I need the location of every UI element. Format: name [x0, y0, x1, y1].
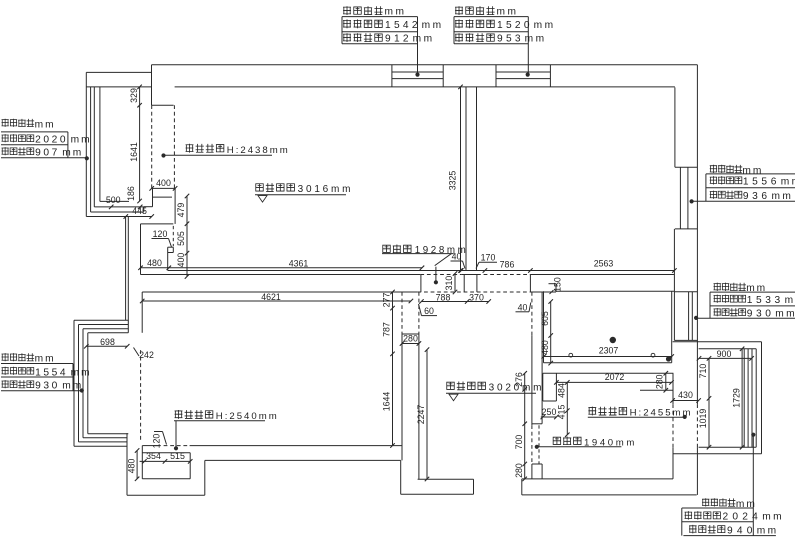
dim 480 flue line (rotated): [135, 448, 139, 481]
svg-text:2307: 2307: [599, 346, 619, 356]
flue box at SW bedroom south: [142, 446, 190, 479]
svg-text:2072: 2072: [605, 372, 625, 382]
wall: bedroom east inner face with balcony opening dashes: [672, 373, 674, 479]
wall: west wall of living room top section: [152, 65, 174, 105]
dim ticks 40/170/786/2563 on wall face: [459, 268, 677, 272]
dim text 329 (rotated): [129, 88, 139, 103]
dim text 277 (rotated): [382, 293, 392, 308]
dim text 186 (rotated): [126, 186, 136, 201]
svg-text:479: 479: [176, 203, 186, 218]
wall: kitchen west inner face: [543, 291, 545, 363]
svg-text:mm: mm: [35, 119, 56, 130]
door frame lines in west wall of bathroom: [402, 334, 419, 344]
wall: hall south wall solid west part: [142, 291, 417, 293]
dim text 698: [100, 337, 115, 347]
wall: north face line of hall (solid+dashed openings): [141, 274, 675, 276]
kitchen dots: [610, 337, 672, 362]
svg-text:698: 698: [100, 337, 115, 347]
wall: SW bedroom south inner wall: [142, 445, 402, 447]
wall: bathroom south protrusion: [401, 460, 474, 494]
dim 500 ticks: [109, 205, 142, 209]
svg-text:930: 930: [35, 381, 60, 392]
svg-text:940: 940: [727, 525, 757, 536]
window W2 jambs: [496, 65, 550, 87]
dim 698 line: [84, 344, 129, 348]
svg-text:3325: 3325: [447, 171, 457, 191]
wall: bedroom west wall line with kitchen door and bedroom door dashes: [531, 292, 533, 479]
svg-text:2563: 2563: [594, 259, 614, 269]
svg-text:515: 515: [170, 451, 185, 461]
svg-text:mm: mm: [525, 34, 547, 45]
svg-text:480: 480: [147, 258, 162, 268]
label: door height 1940 with leader: [535, 436, 637, 448]
svg-text:788: 788: [436, 292, 451, 302]
svg-text:415: 415: [557, 405, 567, 420]
balcony NW: inner wall top: [86, 86, 151, 88]
svg-text:170: 170: [481, 253, 496, 263]
wall: right exterior inner line between windows: [673, 229, 675, 292]
dim chain 277/787/1644 line: [390, 290, 394, 448]
svg-text:mm: mm: [772, 191, 794, 202]
svg-text:430: 430: [678, 390, 693, 400]
label: window east-top (1556/936) box: [690, 174, 795, 204]
svg-text:2247: 2247: [416, 405, 426, 425]
wall: top exterior outer line: [152, 64, 698, 66]
svg-text:700: 700: [514, 435, 524, 450]
dim text 400: [156, 178, 171, 188]
dim 710+1019 line: [707, 356, 711, 449]
dim text 354: [146, 451, 161, 461]
svg-text:505: 505: [176, 231, 186, 246]
dim text 479 (rotated): [176, 203, 186, 218]
label: window west-top text rows: [2, 119, 92, 159]
dim text 786: [500, 259, 515, 269]
door jamb line west of hall opening: [420, 275, 422, 293]
svg-text:mm: mm: [781, 177, 795, 188]
dim 276+700+280 line: [522, 371, 526, 481]
svg-text:930: 930: [747, 309, 775, 320]
label: window top-2 text rows: [455, 6, 556, 45]
dim text 120 flue (rotated) with leader: [152, 432, 167, 449]
dim text 400 vertical (rotated): [176, 253, 186, 268]
svg-text:445: 445: [132, 206, 147, 216]
window W1 glazing lines: [392, 72, 443, 79]
dim text 500: [106, 195, 121, 205]
bedroom door jambs: [532, 424, 542, 464]
label: window top-2 (1520) box: [454, 17, 530, 77]
kitchen counter lines: [544, 357, 672, 363]
dim text 242 with leader: [134, 348, 154, 361]
dim text 1641 (rotated): [129, 142, 139, 162]
wall: exterior south-west step: [127, 433, 401, 495]
wall: west exterior below balcony (double line): [126, 217, 129, 333]
label: door height 1928 with leader: [382, 244, 468, 284]
dim text 280 (rotated): [514, 463, 524, 478]
wall: hall south wall at bedroom top: [532, 291, 557, 293]
svg-text:242: 242: [139, 350, 154, 360]
dim text 710 (rotated): [698, 364, 708, 379]
balcony SE: top lines: [673, 342, 762, 349]
label: lintel H2438 with leader: [161, 144, 289, 158]
dim text 700 (rotated): [514, 435, 524, 450]
dim 280 closet line (rotated): [664, 371, 668, 392]
wall: bedroom south outer line: [522, 479, 697, 495]
svg-text:1928mm: 1928mm: [415, 245, 469, 256]
svg-text:605: 605: [540, 311, 550, 326]
dim text 3325 (rotated): [447, 171, 457, 191]
dim 788+370 line: [419, 299, 491, 303]
svg-text:277: 277: [382, 293, 392, 308]
svg-text:1019: 1019: [698, 409, 708, 429]
svg-text:4621: 4621: [261, 292, 281, 302]
dim text 415 (rotated): [557, 405, 567, 420]
wall: right exterior outer line: [696, 65, 698, 495]
dim text 505 (rotated): [176, 231, 186, 246]
svg-text:mm: mm: [385, 7, 407, 18]
svg-text:787: 787: [382, 322, 392, 337]
sill jamb lines below balcony door: [144, 188, 175, 224]
dim text 1019 (rotated): [698, 409, 708, 429]
wall pier between hall openings: [464, 275, 477, 293]
svg-text:480: 480: [540, 340, 550, 355]
dim text 280 closet (rotated): [655, 374, 665, 389]
svg-text:mm: mm: [757, 525, 779, 536]
dim 400 line (balcony opening): [149, 186, 177, 190]
window W3 (east wall upper): [675, 167, 698, 229]
wall pier left of kitchen door: [529, 275, 531, 293]
svg-text:936: 936: [743, 191, 771, 202]
dim chain 329+1641 line: [137, 85, 141, 204]
svg-text:mm: mm: [35, 354, 56, 365]
svg-text:mm: mm: [497, 7, 519, 18]
wall: bedroom south inner line: [522, 478, 673, 480]
dim text 2247 (rotated): [416, 405, 426, 425]
window W1 jambs: [392, 65, 443, 87]
balcony NW: sill lines at south end: [86, 201, 151, 216]
svg-text:1533: 1533: [747, 295, 784, 306]
svg-text:40: 40: [518, 302, 528, 312]
dim text 120 with leader: [152, 229, 172, 247]
dim 2247 line: [425, 347, 429, 481]
svg-text:60: 60: [424, 306, 434, 316]
svg-text:1644: 1644: [382, 392, 392, 412]
svg-text:mm: mm: [71, 367, 92, 378]
svg-text:912: 912: [385, 34, 412, 45]
svg-text:310: 310: [444, 276, 454, 291]
label: interior height 3020 with underline and level mark: [446, 381, 544, 400]
dim text 2563: [594, 259, 614, 269]
svg-text:3016mm: 3016mm: [298, 184, 354, 195]
svg-text:280: 280: [655, 374, 665, 389]
svg-text:1641: 1641: [129, 142, 139, 162]
svg-text:370: 370: [469, 292, 484, 302]
label: window west-mid text rows: [2, 353, 92, 392]
dim text 1729 (rotated): [731, 388, 741, 408]
svg-text:500: 500: [106, 195, 121, 205]
svg-text:1554: 1554: [35, 367, 68, 378]
window W-E balcony east glazing lines: [744, 342, 761, 454]
window W-A balcony west glazing lines: [86, 72, 100, 216]
bay window SW: nested outlines: [74, 320, 128, 446]
svg-text:953: 953: [497, 34, 524, 45]
label: window south-east (2024/940) box and leader: [682, 433, 776, 536]
window W4 (east wall at kitchen): [674, 292, 697, 341]
svg-text:3020mm: 3020mm: [489, 383, 545, 394]
dim chain 479/505/400 line: [185, 194, 189, 279]
kitchen counter circles: [569, 353, 655, 357]
svg-text:mm: mm: [785, 295, 795, 306]
dim text 480 (living room door): [147, 258, 162, 268]
svg-text:mm: mm: [775, 309, 795, 320]
label: window top-1 text rows: [343, 6, 444, 45]
label: lintel H2540 with leader: [174, 410, 279, 450]
label: window east-mid text rows: [714, 283, 795, 320]
wall: NW corner of SW bedroom: [141, 292, 143, 333]
svg-text:mm: mm: [422, 20, 444, 31]
svg-text:1556: 1556: [743, 177, 780, 188]
dim text 60 (underlined, leader): [419, 304, 438, 316]
dim text 280 door: [400, 333, 421, 345]
svg-text:mm: mm: [736, 499, 757, 510]
svg-text:900: 900: [717, 349, 732, 359]
dim text 480 flue (rotated): [126, 459, 136, 474]
label: window west-top (2020/907) box: [1, 132, 89, 161]
balcony SE: bottom lines: [673, 447, 762, 454]
dim text 445: [132, 206, 147, 216]
svg-text:710: 710: [698, 364, 708, 379]
svg-text:786: 786: [500, 259, 515, 269]
label: window south-east text rows: [685, 498, 784, 536]
svg-text:280: 280: [403, 333, 418, 343]
svg-text:mm: mm: [413, 34, 435, 45]
wall: right exterior opening to balcony (dashed): [696, 404, 698, 447]
dim text 1644 (rotated): [382, 392, 392, 412]
svg-text:1520: 1520: [497, 20, 533, 31]
dim 3325 line: [458, 85, 462, 273]
svg-text:480: 480: [126, 459, 136, 474]
dim text 787 (rotated): [382, 322, 392, 337]
wall: bathroom west wall with door opening (dashed): [402, 292, 419, 479]
svg-text:4361: 4361: [289, 259, 309, 269]
label: window top-1 (1542) box: [342, 17, 420, 77]
svg-text:mm: mm: [746, 283, 767, 294]
dim text 430: [678, 390, 693, 400]
svg-text:400: 400: [156, 178, 171, 188]
svg-text:186: 186: [126, 186, 136, 201]
closet east segment bottom: [640, 389, 673, 391]
dim 1729 line: [740, 347, 744, 450]
dim text 900: [717, 349, 732, 359]
closet front line / dim 2072 line: [554, 380, 674, 384]
wall: south face line of north rooms: [168, 270, 675, 272]
dim text 40 (underlined): [451, 252, 466, 269]
door jamb block SW: [168, 247, 174, 270]
kitchen top notch (150): [549, 284, 675, 292]
svg-text:120: 120: [152, 434, 162, 449]
dim text 605 (rotated): [540, 311, 550, 326]
svg-text:2024: 2024: [723, 512, 762, 523]
wall: partition between north rooms: [466, 87, 477, 271]
svg-text:150: 150: [553, 277, 563, 292]
svg-text:354: 354: [146, 451, 161, 461]
wall: right exterior inner line upper: [674, 87, 676, 167]
wall: top exterior inner line: [175, 86, 675, 88]
dim text 4361: [289, 259, 309, 269]
label: lintel H2455 with leader: [588, 407, 693, 419]
dim 484+415 line: [565, 380, 569, 437]
window W2 glazing lines: [496, 72, 550, 79]
svg-text:329: 329: [129, 88, 139, 103]
dim text 40 kitchen side (underlined, leader): [516, 302, 531, 312]
dim 605+480 line: [548, 299, 552, 365]
wall: bedroom west wall east face: [541, 292, 543, 479]
label: window east-top text rows: [710, 165, 795, 202]
svg-text:H:2438mm: H:2438mm: [227, 145, 290, 156]
dim text 310 (rotated): [444, 276, 454, 291]
svg-text:2020: 2020: [35, 135, 68, 146]
svg-text:mm: mm: [762, 512, 784, 523]
svg-text:250: 250: [542, 407, 557, 417]
dim 4621 line: [140, 299, 413, 303]
dim 900 line: [697, 356, 754, 360]
balcony NW: outer wall top: [86, 71, 151, 73]
svg-text:mm: mm: [71, 135, 92, 146]
dim text 4621: [261, 292, 281, 302]
svg-text:mm: mm: [62, 148, 83, 159]
svg-text:mm: mm: [742, 165, 763, 176]
dim text 480 kitchen (rotated): [540, 340, 550, 355]
svg-text:400: 400: [176, 253, 186, 268]
dim text 2072: [605, 372, 625, 382]
dim text 484 (rotated): [557, 383, 567, 398]
svg-text:mm: mm: [62, 381, 83, 392]
dim 310 line (rotated): [453, 271, 457, 294]
opening: bay window west side (dashed): [140, 350, 142, 442]
closet west box: [543, 373, 557, 401]
wall: hall south wall dashed openings: [417, 291, 531, 293]
dim text 788: [436, 292, 451, 302]
wall pier at living room SW corner: [141, 224, 174, 275]
door opening dashes (SW door): [172, 226, 174, 246]
svg-text:120: 120: [153, 229, 168, 239]
svg-text:1542: 1542: [385, 20, 421, 31]
dim 250 line and text: [541, 407, 559, 419]
svg-text:484: 484: [557, 383, 567, 398]
label: window west-mid (1554/930) box: [1, 364, 84, 393]
dim text 370: [469, 292, 484, 302]
dim 430 line: [670, 398, 700, 402]
label: interior height 3016 with underline and level mark: [255, 183, 353, 202]
label: window east-mid (1533/930) box: [694, 292, 795, 320]
opening: balcony door (dashed jambs): [152, 105, 175, 188]
svg-text:1729: 1729: [731, 388, 741, 408]
svg-text:280: 280: [514, 463, 524, 478]
svg-text:907: 907: [35, 148, 60, 159]
wall: kitchen east inner face: [671, 291, 673, 363]
dim text 276 (rotated): [514, 372, 524, 387]
wall: bedroom north wall: [543, 372, 674, 374]
dim 354+515 line: [140, 459, 193, 463]
dim chain 480+4361 line: [138, 266, 424, 270]
dim text 150 (rotated) with leader: [550, 277, 563, 294]
svg-text:mm: mm: [534, 20, 556, 31]
dim text 515: [170, 451, 185, 461]
dim text 170 (underlined): [476, 253, 497, 269]
dim 445 ticks: [124, 214, 154, 218]
dim 2307 ticks and text: [542, 346, 674, 359]
